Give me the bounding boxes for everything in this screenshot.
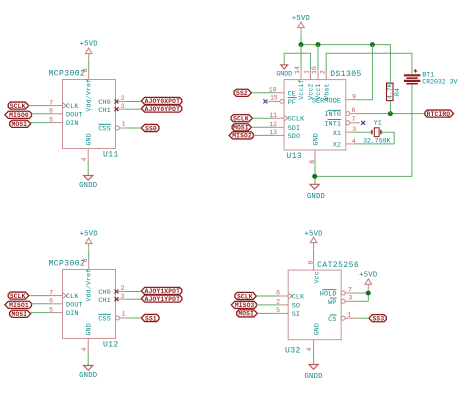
svg-text:Vdd/Vref: Vdd/Vref [86, 269, 93, 302]
net label RTCIRQ [425, 110, 454, 117]
svg-text:4: 4 [81, 158, 88, 162]
pin 6 DOUT of U11 [51, 113, 62, 115]
pin 8 Vdd of U11 [88, 70, 90, 80]
svg-text:RTCIRQ: RTCIRQ [427, 111, 451, 118]
battery BT1 CR2032 [404, 74, 421, 76]
svg-text:CLK: CLK [66, 293, 79, 301]
pin 4 GND of U12 [87, 339, 89, 352]
pin 2 SO of U32 [278, 304, 288, 306]
svg-text:SCLK: SCLK [237, 293, 253, 300]
wire rail to U13 SERMODE pin 9 [356, 45, 372, 100]
net label SS0 at U11 [141, 124, 159, 131]
net label MOSI at U12 [10, 310, 31, 317]
svg-text:SERMODE: SERMODE [312, 97, 341, 105]
svg-text:+5VD: +5VD [304, 230, 322, 238]
wire +5V rail to R4 top [301, 45, 390, 73]
svg-text:2: 2 [121, 285, 125, 292]
pin 1 CS of U32 (inverted) [341, 316, 345, 320]
wire +5VD down to rail [300, 34, 302, 45]
svg-text:INT0: INT0 [324, 111, 341, 119]
pin 16 Vcc1 of U13 [317, 69, 319, 80]
net label MISO0 at U11 [5, 111, 32, 118]
ground symbol at U13 Vcc2 [281, 65, 288, 69]
wire U32 GND to ground [313, 350, 315, 365]
svg-text:GNDD: GNDD [276, 71, 292, 78]
svg-text:U13: U13 [286, 152, 302, 161]
net label MISO2 at U13 [229, 132, 253, 139]
pin 15 PF of U13 (inverted, unconnected) [280, 99, 284, 103]
net label AJOY1YPOT at U12 [141, 295, 182, 302]
svg-text:AJOY1XPOT: AJOY1XPOT [145, 288, 180, 295]
ground symbol below U11 [84, 176, 93, 181]
junction +5V rail at pin 14 drop [299, 42, 304, 47]
pin 8 GND of U13 [314, 150, 316, 160]
svg-text:GND: GND [313, 323, 320, 335]
wire MISO3 to U32 SO [256, 304, 278, 306]
svg-text:Y1: Y1 [374, 120, 382, 127]
svg-text:CS: CS [328, 316, 336, 324]
svg-text:GND: GND [86, 323, 93, 335]
ground symbol below U12 [84, 366, 93, 371]
svg-text:+5VD: +5VD [359, 272, 377, 280]
wire INT0 to RTCIRQ [356, 113, 425, 115]
svg-text:CLK: CLK [292, 294, 305, 302]
junction U13 GND / battery return [312, 174, 317, 179]
svg-text:16: 16 [311, 66, 318, 74]
wire U12 GND to ground [87, 351, 89, 366]
pin 13 SDO of U13 [274, 134, 284, 136]
pin 6 CLK of U32 [278, 295, 288, 297]
net label AJOY0YPOT at U11 [141, 105, 182, 112]
resistor R4 4.7K [387, 83, 394, 101]
svg-text:CH1: CH1 [98, 297, 111, 305]
wire SCLK to U32 CLK [256, 295, 278, 297]
pin 12 SDI of U13 [274, 126, 284, 128]
svg-text:BT1: BT1 [422, 72, 434, 79]
svg-text:7: 7 [352, 116, 356, 123]
svg-text:4: 4 [81, 348, 88, 352]
op-amp U12 MCP3002 body [63, 270, 116, 339]
svg-text:GNDD: GNDD [304, 373, 322, 381]
svg-text:3: 3 [348, 295, 352, 302]
svg-text:8: 8 [308, 261, 315, 265]
svg-text:CE: CE [288, 90, 296, 98]
svg-text:1: 1 [122, 311, 126, 318]
pin 3 CH1 of U12 [116, 298, 127, 300]
net label SS1 at U12 [141, 314, 159, 321]
svg-text:MISO3: MISO3 [235, 302, 255, 309]
svg-text:MISO2: MISO2 [232, 133, 252, 140]
svg-text:X2: X2 [333, 142, 341, 150]
pin 2 CH0 of U11 [116, 101, 127, 103]
svg-text:9: 9 [352, 94, 356, 101]
pin 8 Vcc of U32 [313, 260, 315, 270]
wire rail to U13 pin 16 [317, 45, 319, 69]
svg-text:SDI: SDI [288, 125, 301, 133]
junction INT0 / R4 bottom [388, 111, 393, 116]
pin 4 GND of U32 [313, 340, 315, 350]
wire U13 Vbat pin 2 to battery + [326, 53, 412, 74]
wire crystal Y1 to X2 [354, 132, 394, 144]
wire SCLK to U13 SCLK [252, 117, 274, 119]
svg-text:8: 8 [82, 258, 89, 262]
IC U32 CAT25256 body [288, 270, 341, 340]
wire MOSI to U13 SDI [251, 126, 274, 128]
wire battery - to U13 GND net [315, 85, 412, 177]
op-amp U11 MCP3002 body [63, 80, 116, 149]
wire +5VD to U32 HOLD [357, 292, 369, 294]
svg-text:CSS: CSS [98, 126, 111, 134]
svg-text:U11: U11 [103, 151, 119, 160]
svg-text:AJOY0YPOT: AJOY0YPOT [145, 106, 180, 113]
svg-text:SDO: SDO [288, 133, 301, 141]
net label MOSI at U32 [237, 310, 258, 317]
+5VD supply symbol at U32 HOLD/WP [365, 279, 372, 285]
svg-text:PF: PF [288, 99, 296, 107]
svg-text:MCP3002: MCP3002 [49, 260, 86, 269]
svg-text:3: 3 [121, 293, 125, 300]
svg-text:7: 7 [348, 286, 352, 293]
pin 8 Vdd of U12 [88, 260, 90, 270]
wire SS2 to U13 CE [251, 92, 274, 94]
wire MISO0 to U11 DOUT [32, 113, 52, 115]
svg-text:CAT25256: CAT25256 [317, 261, 359, 270]
crystal Y1 [371, 130, 373, 135]
net label SS3 at U32 [369, 315, 386, 322]
pin 1 Vcc2 of U13 [310, 69, 312, 80]
wire SCLK to U12 CLK [29, 295, 52, 297]
wire MOSI to U32 SI [257, 312, 278, 314]
wire X1 to crystal Y1 [354, 131, 372, 133]
+5VD supply symbol above U11 [85, 48, 92, 54]
svg-text:15: 15 [270, 94, 278, 101]
pin 5 DIN of U11 [51, 122, 62, 124]
wire AJOY1YPOT to U12 CH1 [126, 298, 141, 300]
+5VD supply symbol above U32 [310, 237, 317, 243]
wire +5VD to U11 Vdd pin [88, 60, 90, 71]
pin 4 X2 of U13 [346, 143, 355, 145]
pin 3 CH1 of U11 [116, 108, 127, 110]
wire GNDD to U13 pin 1 Vcc2 [284, 53, 310, 69]
svg-text:R4: R4 [394, 88, 401, 96]
ground symbol below U32 [309, 365, 318, 370]
svg-text:WP: WP [328, 299, 336, 307]
pin 1 CSS of U12 (inverted) [116, 316, 120, 320]
wire MOSI to U11 DIN [31, 122, 52, 124]
pin 4 GND of U11 [87, 149, 89, 162]
net label MOSI at U13 [232, 124, 251, 131]
pin 7 HOLD of U32 (inverted) [341, 291, 345, 295]
pin 3 WP of U32 (inverted) [341, 299, 345, 303]
net label MOSI at U11 [10, 120, 31, 127]
pin 2 CH0 of U12 [116, 291, 127, 293]
svg-text:INT1: INT1 [324, 120, 341, 128]
wire rail to R4 [389, 73, 391, 84]
wire U11 GND to ground [87, 161, 89, 176]
svg-text:MOSI: MOSI [11, 121, 27, 128]
wire AJOY1XPOT to U12 CH0 [126, 291, 141, 293]
net label MISO3 at U32 [231, 301, 256, 308]
svg-text:10: 10 [269, 86, 277, 93]
ground symbol below U13 [310, 184, 319, 189]
svg-text:MISO0: MISO0 [9, 112, 29, 119]
pin 3 X1 of U13 [346, 131, 355, 133]
svg-text:Vccif: Vccif [298, 79, 305, 100]
wire U13 GND pin to ground [314, 160, 316, 184]
svg-text:DOUT: DOUT [66, 301, 83, 309]
svg-text:SCLK: SCLK [288, 116, 306, 124]
svg-text:CSS: CSS [98, 316, 111, 324]
svg-text:+5VD: +5VD [80, 41, 98, 49]
svg-text:MOSI: MOSI [238, 311, 254, 318]
svg-text:SS3: SS3 [373, 315, 385, 322]
pin 14 Vccif of U13 [300, 69, 302, 80]
wire MISO1 to U12 DOUT [32, 303, 52, 305]
svg-text:1: 1 [347, 312, 351, 319]
svg-text:SS1: SS1 [145, 315, 157, 322]
wire SS1 to U12 CSS [126, 317, 141, 319]
svg-text:6: 6 [352, 107, 356, 114]
wire SS0 to U11 CSS [126, 127, 141, 129]
wire MOSI to U12 DIN [31, 312, 52, 314]
net label SCLK at U13 [231, 115, 252, 122]
wire MISO2 to U13 SDO [253, 134, 274, 136]
svg-text:CH1: CH1 [98, 107, 111, 115]
svg-text:4.7K: 4.7K [387, 83, 394, 99]
svg-text:SI: SI [292, 311, 300, 319]
svg-text:SS2: SS2 [236, 90, 248, 97]
svg-text:SO: SO [292, 302, 300, 310]
junction HOLD/WP +5V [366, 291, 371, 296]
svg-text:GNDD: GNDD [79, 182, 97, 190]
+5VD supply symbol above U13 [298, 22, 305, 28]
wire +5VD to U32 Vcc [313, 249, 315, 261]
svg-text:GNDD: GNDD [79, 372, 97, 380]
svg-text:GND: GND [313, 133, 320, 145]
svg-text:8: 8 [82, 68, 89, 72]
svg-text:HOLD: HOLD [320, 291, 337, 299]
svg-text:DIN: DIN [66, 310, 79, 318]
svg-text:SS0: SS0 [145, 125, 157, 132]
svg-text:DS1305: DS1305 [330, 70, 362, 79]
junction +5V rail at pin 16 drop [316, 42, 321, 47]
net label MISO1 at U12 [5, 301, 32, 308]
pin 1 CSS of U11 (inverted) [116, 126, 120, 130]
svg-text:SCLK: SCLK [233, 115, 249, 122]
wire rail to U13 pin 14 [300, 45, 302, 69]
svg-text:4: 4 [306, 348, 313, 352]
svg-text:U32: U32 [285, 346, 301, 355]
svg-text:SCLK: SCLK [10, 293, 26, 300]
svg-text:+5VD: +5VD [292, 15, 310, 23]
svg-text:SCLK: SCLK [10, 103, 26, 110]
net label AJOY0XPOT at U11 [141, 97, 182, 104]
svg-text:Vdd/Vref: Vdd/Vref [86, 79, 93, 112]
pin 6 INT0 of U13 (inverted) [346, 112, 350, 116]
pin 5 SI of U32 [278, 312, 288, 314]
svg-text:14: 14 [294, 66, 301, 74]
svg-text:1: 1 [122, 121, 126, 128]
svg-text:CR2032 3V: CR2032 3V [422, 79, 457, 86]
svg-text:3: 3 [121, 103, 125, 110]
svg-text:DOUT: DOUT [66, 111, 83, 119]
svg-text:X1: X1 [333, 130, 341, 138]
svg-text:1: 1 [304, 70, 311, 74]
svg-text:AJOY0XPOT: AJOY0XPOT [145, 98, 180, 105]
wire SS3 to U32 CS [357, 317, 369, 319]
junction +5V rail at SERMODE riser [370, 42, 375, 47]
pin 5 DIN of U12 [51, 312, 62, 314]
IC U13 DS1305 body [284, 80, 346, 150]
net label SCLK at U11 [8, 102, 29, 109]
svg-text:2: 2 [121, 95, 125, 102]
svg-text:MISO1: MISO1 [9, 302, 29, 309]
pin 10 CE of U13 [274, 92, 284, 94]
pin 6 DOUT of U12 [51, 303, 62, 305]
svg-text:+5VD: +5VD [80, 231, 98, 239]
svg-text:MCP3002: MCP3002 [49, 70, 86, 79]
svg-text:2: 2 [319, 70, 326, 74]
pin 9 SERMODE of U13 [346, 99, 356, 101]
svg-text:MOSI: MOSI [11, 311, 27, 318]
svg-text:AJOY1YPOT: AJOY1YPOT [145, 296, 180, 303]
net label SCLK at U32 [235, 292, 257, 299]
svg-text:MOSI: MOSI [233, 125, 249, 132]
pin 11 SCLK of U13 [274, 117, 284, 119]
wire AJOY0YPOT to U11 CH1 [126, 108, 141, 110]
net label SCLK at U12 [8, 292, 29, 299]
net label AJOY1XPOT at U12 [141, 287, 182, 294]
svg-text:U12: U12 [103, 341, 119, 350]
wire SCLK to U11 CLK [29, 105, 52, 107]
svg-text:GNDD: GNDD [307, 193, 325, 201]
wire AJOY0XPOT to U11 CH0 [126, 101, 141, 103]
wire R4 bottom to INT0 net [389, 101, 391, 114]
svg-text:DIN: DIN [66, 120, 79, 128]
svg-text:GND: GND [86, 133, 93, 145]
+5VD supply symbol above U12 [85, 238, 92, 244]
pin 7 CLK of U11 [51, 105, 62, 107]
wire +5VD to U12 Vdd pin [88, 250, 90, 261]
pin 7 INT1 of U13 (inverted, unconnected) [346, 121, 350, 125]
pin 2 Vbat of U13 [325, 69, 327, 80]
svg-text:Vcc: Vcc [313, 271, 320, 283]
svg-text:32.768K: 32.768K [363, 137, 390, 144]
svg-text:CLK: CLK [66, 103, 79, 111]
wire +5VD to U32 WP [357, 290, 369, 301]
net label SS2 at U13 [234, 89, 251, 96]
pin 7 CLK of U12 [51, 295, 62, 297]
